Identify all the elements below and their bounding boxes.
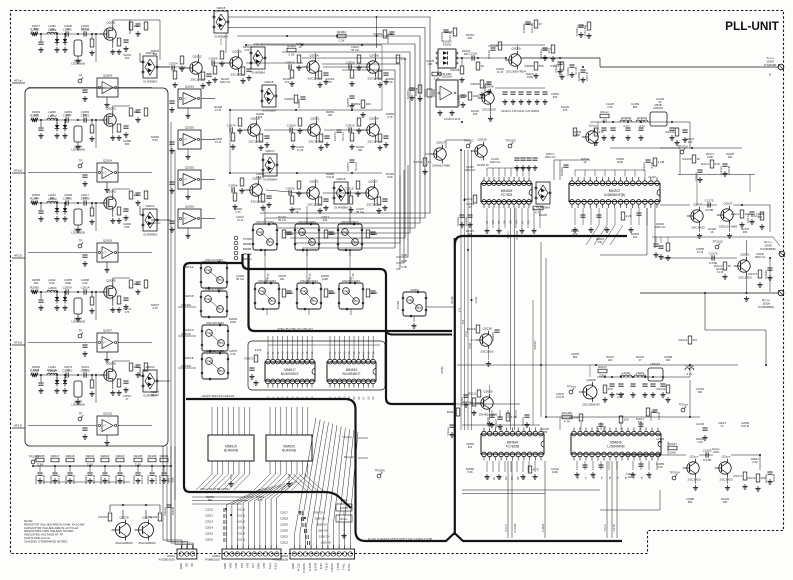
svg-text:5.6K: 5.6K bbox=[49, 27, 55, 31]
svg-text:C2181: C2181 bbox=[764, 474, 768, 483]
capacitor C2038 bbox=[158, 473, 170, 484]
svg-text:1K: 1K bbox=[710, 230, 713, 234]
svg-text:C2134: C2134 bbox=[595, 426, 599, 435]
svg-text:100K: 100K bbox=[322, 277, 328, 281]
svg-text:100K: 100K bbox=[65, 281, 71, 285]
resistor R2059 bbox=[471, 80, 490, 88]
resistor R2064 bbox=[160, 454, 169, 462]
ground bbox=[697, 233, 702, 238]
capacitor bbox=[135, 110, 140, 112]
ground bbox=[286, 481, 291, 486]
svg-text:C2145: C2145 bbox=[457, 97, 461, 106]
svg-text:Q2007: Q2007 bbox=[103, 329, 112, 333]
resistor R2149 bbox=[570, 414, 583, 421]
value label bbox=[686, 137, 694, 144]
ground bbox=[422, 169, 427, 174]
svg-text:0.01 B: 0.01 B bbox=[256, 175, 264, 179]
svg-text:C2165: C2165 bbox=[703, 448, 712, 452]
resistor bbox=[201, 72, 205, 80]
ground bbox=[149, 478, 154, 483]
capacitor bbox=[286, 291, 291, 293]
wire thick bus B bbox=[249, 254, 453, 331]
value label bbox=[48, 193, 56, 200]
resistor bbox=[573, 128, 577, 136]
ground bbox=[660, 392, 665, 397]
capacitor bbox=[82, 90, 87, 92]
svg-text:2.2M: 2.2M bbox=[658, 160, 665, 164]
ground bbox=[519, 228, 524, 233]
svg-text:2SC3000GR: 2SC3000GR bbox=[582, 403, 600, 407]
capacitor bbox=[382, 199, 387, 201]
capacitor bbox=[580, 215, 585, 217]
value label bbox=[326, 110, 334, 117]
capacitor C2013 bbox=[81, 196, 90, 205]
svg-text:P/08B2B2B: P/08B2B2B bbox=[272, 557, 288, 561]
svg-text:C2077: C2077 bbox=[346, 162, 350, 171]
value label bbox=[32, 110, 40, 117]
value label bbox=[616, 392, 624, 399]
svg-text:C2075: C2075 bbox=[346, 98, 350, 107]
transistor Q2005 bbox=[579, 378, 601, 407]
ground bbox=[240, 78, 245, 83]
value label bbox=[326, 77, 334, 84]
wire bbox=[119, 466, 121, 472]
svg-text:VT0: VT0 bbox=[460, 307, 462, 312]
value label bbox=[278, 215, 286, 222]
resistor bbox=[528, 466, 539, 473]
wire Rx jog path bbox=[705, 293, 766, 365]
ground bbox=[486, 89, 491, 94]
capacitor C2015 bbox=[345, 186, 354, 195]
node UHF11! bbox=[178, 332, 196, 336]
svg-text:GND: GND bbox=[223, 563, 227, 569]
ground bbox=[630, 472, 635, 477]
ground bbox=[449, 110, 454, 115]
ground bbox=[116, 218, 121, 223]
value label bbox=[462, 49, 470, 56]
svg-text:VT1B: VT1B bbox=[467, 331, 469, 337]
ground bbox=[323, 205, 328, 210]
ground bbox=[409, 95, 414, 100]
wire bbox=[96, 361, 130, 389]
svg-text:Q2009: Q2009 bbox=[511, 47, 521, 51]
wire bundle to J2021 bbox=[163, 446, 193, 549]
node input row R2062 bbox=[30, 33, 96, 35]
capacitor C2181 bbox=[764, 472, 776, 483]
svg-text:3.3K: 3.3K bbox=[433, 77, 439, 81]
wire bbox=[40, 292, 42, 299]
svg-text:C2B1B7: C2B1B7 bbox=[534, 340, 537, 350]
svg-text:Q2005: Q2005 bbox=[586, 378, 596, 382]
value label bbox=[596, 237, 604, 244]
svg-text:OSC17 FM23: OSC17 FM23 bbox=[205, 287, 223, 291]
resistor R2022 bbox=[101, 454, 110, 462]
wire bbox=[28, 88, 152, 103]
svg-text:33K: 33K bbox=[666, 358, 671, 362]
svg-text:R2064: R2064 bbox=[160, 454, 169, 458]
resistor bbox=[290, 70, 294, 78]
capacitor C2009 bbox=[63, 285, 72, 294]
svg-text:R2147: R2147 bbox=[668, 442, 677, 446]
svg-text:R2103: R2103 bbox=[99, 515, 108, 519]
svg-text:680: 680 bbox=[658, 440, 663, 444]
svg-text:C2030: C2030 bbox=[34, 475, 38, 484]
svg-text:TP2xxx: TP2xxx bbox=[567, 384, 577, 388]
capacitor bbox=[38, 42, 43, 44]
wire thick bus branch bbox=[386, 328, 452, 335]
svg-text:B-5TB: B-5TB bbox=[313, 563, 317, 571]
test point TP2005 bbox=[505, 138, 516, 148]
ground bbox=[604, 227, 609, 232]
VCO module OSC06 FM23 bbox=[296, 279, 322, 310]
transistor Q2006 bbox=[363, 54, 381, 81]
wire long vertical bbox=[174, 150, 176, 500]
capacitor C2077 bbox=[346, 160, 358, 171]
svg-text:C2035: C2035 bbox=[114, 475, 118, 484]
resistor bbox=[129, 363, 139, 371]
svg-text:B-PLL: B-PLL bbox=[347, 563, 351, 571]
ground bbox=[38, 133, 43, 138]
svg-text:P-CLK P-DATA 8-STB P-STB T-CLK: P-CLK P-DATA 8-STB P-STB T-CLK T-DATA T-… bbox=[368, 537, 432, 541]
FET Q2008 bbox=[100, 362, 116, 385]
svg-text:5.6K: 5.6K bbox=[467, 470, 473, 474]
diode mixer D2010 bbox=[142, 365, 158, 398]
ground bbox=[38, 305, 43, 310]
svg-text:C2015: C2015 bbox=[345, 186, 354, 190]
capacitor C2134 bbox=[595, 424, 607, 435]
capacitor C2050 bbox=[346, 60, 355, 69]
buffer amp Q2020 bbox=[178, 126, 201, 150]
pin labels bbox=[179, 563, 194, 569]
svg-text:C2014: C2014 bbox=[81, 285, 90, 289]
ground bbox=[653, 252, 658, 257]
resistor bbox=[349, 196, 353, 204]
svg-text:BU4094BCF: BU4094BCF bbox=[343, 372, 361, 376]
svg-text:4.7K: 4.7K bbox=[152, 306, 158, 310]
svg-text:C2036: C2036 bbox=[132, 475, 136, 484]
svg-text:R-STB: R-STB bbox=[308, 563, 312, 571]
svg-text:1K: 1K bbox=[50, 113, 53, 117]
resistor bbox=[350, 70, 354, 78]
ground bbox=[349, 81, 354, 86]
ground bbox=[123, 215, 128, 220]
svg-text:5.6K: 5.6K bbox=[49, 281, 55, 285]
wire bbox=[425, 140, 470, 154]
resistor bbox=[621, 212, 632, 220]
capacitor bbox=[514, 158, 519, 160]
diode bbox=[63, 294, 67, 304]
svg-text:L-T5: L-T5 bbox=[351, 273, 355, 279]
diode mixer D2019 bbox=[250, 42, 266, 75]
resistor bbox=[533, 206, 543, 214]
svg-text:R-CLK: R-CLK bbox=[507, 231, 510, 239]
svg-text:2SC2603: 2SC2603 bbox=[481, 350, 494, 354]
IC M54844 bbox=[481, 428, 544, 461]
svg-text:2.2K: 2.2K bbox=[752, 460, 758, 464]
svg-text:10K: 10K bbox=[280, 277, 285, 281]
ground bbox=[75, 227, 80, 232]
ground bbox=[510, 99, 515, 104]
test point TP2002 bbox=[463, 138, 474, 148]
pin labels bbox=[223, 562, 277, 569]
svg-text:B-5V: B-5V bbox=[319, 563, 323, 569]
svg-text:T-PLL: T-PLL bbox=[341, 562, 345, 570]
wire bbox=[297, 116, 317, 143]
transistor Q2xxx bbox=[582, 124, 598, 147]
value label bbox=[123, 394, 131, 401]
capacitor C2070 bbox=[440, 30, 452, 41]
svg-text:LC58494NB: LC58494NB bbox=[607, 444, 624, 448]
resistor bbox=[144, 108, 148, 116]
crystal oscillator X2001 bbox=[436, 40, 458, 69]
capacitor bbox=[598, 465, 603, 467]
FET Q2005 bbox=[100, 279, 116, 302]
svg-text:1M: 1M bbox=[693, 338, 698, 342]
capacitor C2176 bbox=[709, 251, 718, 264]
diode bbox=[63, 36, 67, 46]
value label bbox=[664, 355, 672, 362]
svg-text:C2xxx: C2xxx bbox=[163, 507, 167, 516]
svg-text:C2034: C2034 bbox=[169, 61, 178, 65]
ground bbox=[323, 79, 328, 84]
svg-text:R2113: R2113 bbox=[447, 410, 456, 414]
ground bbox=[239, 188, 244, 193]
resistor R2106 bbox=[148, 454, 157, 462]
transistor Q2078 bbox=[135, 515, 157, 545]
capacitor C2008 bbox=[63, 196, 72, 205]
resistor R2061 bbox=[287, 44, 296, 57]
ground bbox=[161, 478, 166, 483]
svg-text:TP2007: TP2007 bbox=[243, 237, 253, 241]
svg-text:R2061: R2061 bbox=[287, 44, 296, 48]
capacitor bbox=[82, 428, 87, 430]
svg-text:1000 CH: 1000 CH bbox=[316, 523, 327, 527]
capacitor C2xxx bbox=[460, 395, 469, 406]
resistor R2018 bbox=[66, 454, 75, 462]
ground bbox=[116, 49, 121, 54]
ground bbox=[702, 435, 707, 440]
svg-text:FC7825: FC7825 bbox=[501, 193, 513, 197]
FET Q2011 bbox=[100, 21, 116, 44]
node HF13! bbox=[12, 424, 25, 429]
wire Rx Lo line bbox=[640, 292, 778, 294]
resistor bbox=[129, 280, 139, 288]
capacitor C2007 bbox=[63, 113, 72, 122]
svg-text:C2133: C2133 bbox=[521, 417, 525, 426]
ground bbox=[377, 82, 382, 87]
svg-text:Q2047: Q2047 bbox=[723, 202, 733, 206]
value label bbox=[616, 157, 624, 164]
svg-text:Q2036: Q2036 bbox=[477, 138, 487, 142]
resistor bbox=[129, 22, 139, 30]
svg-text:Q2071: Q2071 bbox=[740, 253, 750, 257]
resistor R2064 bbox=[30, 197, 39, 206]
resistor bbox=[366, 289, 377, 297]
ground bbox=[296, 65, 301, 70]
svg-text:C2064: C2064 bbox=[406, 90, 410, 99]
resistor R2058 bbox=[409, 85, 422, 93]
wire bbox=[96, 189, 130, 217]
svg-text:2SA1208GR: 2SA1208GR bbox=[115, 541, 133, 545]
capacitor C2203 bbox=[491, 330, 500, 341]
svg-text:0.01 B: 0.01 B bbox=[57, 475, 61, 484]
resistor R2138 bbox=[451, 66, 464, 74]
capacitor C2123 bbox=[464, 215, 473, 226]
ground bbox=[665, 255, 670, 260]
ground bbox=[104, 102, 109, 107]
svg-text:C2031: C2031 bbox=[49, 475, 53, 484]
wire bbox=[40, 375, 42, 382]
ground bbox=[290, 144, 295, 149]
ground bbox=[185, 194, 190, 199]
inductor L2004 bbox=[47, 286, 58, 292]
resistor R2023 bbox=[116, 454, 125, 462]
ground bbox=[520, 474, 525, 479]
svg-text:TP: TP bbox=[79, 411, 83, 415]
svg-text:T-STB: T-STB bbox=[613, 524, 616, 531]
wire nested bus bbox=[228, 16, 430, 269]
inductor LR2024 bbox=[636, 116, 648, 128]
svg-text:R2xxx: R2xxx bbox=[340, 517, 348, 521]
ground bbox=[550, 56, 555, 61]
svg-text:10K: 10K bbox=[428, 62, 433, 66]
svg-text:1000 CH: 1000 CH bbox=[321, 541, 332, 545]
value label bbox=[296, 42, 304, 49]
wire IC5 pin fan bbox=[196, 474, 308, 490]
ground bbox=[135, 31, 140, 36]
svg-text:Y-(C): Y-(C) bbox=[268, 563, 272, 569]
capacitor bbox=[286, 232, 291, 234]
ground bbox=[318, 145, 323, 150]
svg-text:BU4094B: BU4094B bbox=[224, 448, 238, 452]
diode bbox=[63, 377, 67, 387]
svg-text:C2070: C2070 bbox=[286, 60, 295, 64]
ground bbox=[757, 282, 762, 287]
capacitor C2075 bbox=[346, 96, 355, 107]
svg-text:C2203: C2203 bbox=[491, 332, 495, 341]
value label bbox=[631, 232, 639, 239]
svg-text:C2036: C2036 bbox=[286, 186, 295, 190]
capacitor C2190 bbox=[486, 415, 495, 426]
svg-text:10K: 10K bbox=[328, 113, 333, 117]
svg-text:56 CH: 56 CH bbox=[236, 277, 244, 281]
svg-text:1000 CH: 1000 CH bbox=[313, 511, 324, 515]
wire bbox=[140, 367, 170, 381]
capacitor bbox=[328, 232, 333, 234]
node input row R2066 bbox=[30, 374, 96, 376]
svg-text:680: 680 bbox=[208, 498, 213, 502]
resistor bbox=[90, 208, 94, 216]
resistor R2xxx bbox=[463, 398, 476, 406]
svg-text:2.2K: 2.2K bbox=[401, 57, 407, 61]
resistor bbox=[619, 416, 629, 423]
value label bbox=[466, 442, 474, 449]
resistor R2062 bbox=[30, 28, 39, 37]
resistor bbox=[476, 62, 484, 70]
svg-text:P-DATA: P-DATA bbox=[302, 563, 306, 573]
ground bbox=[38, 47, 43, 52]
ground bbox=[135, 478, 140, 483]
ground bbox=[502, 99, 507, 104]
resistor bbox=[241, 67, 245, 75]
svg-text:100: 100 bbox=[651, 410, 656, 414]
ground bbox=[110, 307, 115, 312]
value label bbox=[123, 139, 131, 146]
svg-text:R2136: R2136 bbox=[489, 44, 498, 48]
svg-text:L300BB0B: L300BB0B bbox=[71, 403, 85, 407]
capacitor bbox=[383, 136, 388, 138]
svg-text:21.4M: 21.4M bbox=[648, 175, 655, 179]
inductor L2020 bbox=[620, 371, 632, 377]
ground bbox=[206, 80, 211, 85]
ground bbox=[383, 142, 388, 147]
svg-text:33K: 33K bbox=[468, 232, 473, 236]
capacitor bbox=[383, 73, 388, 75]
svg-text:Q2021: Q2021 bbox=[310, 117, 320, 121]
svg-text:C2038: C2038 bbox=[158, 475, 162, 484]
VCO module OSC18 FM23 bbox=[201, 321, 229, 352]
value label bbox=[606, 102, 614, 109]
svg-text:E-(C): E-(C) bbox=[273, 563, 277, 570]
svg-text:47: 47 bbox=[469, 205, 472, 209]
ground bbox=[526, 165, 531, 170]
resistor bbox=[90, 297, 94, 305]
svg-text:B201N: B201N bbox=[442, 40, 451, 44]
capacitor C2032 bbox=[64, 473, 76, 484]
capacitor C2006 bbox=[63, 27, 72, 36]
wire thick bus A bbox=[243, 254, 457, 404]
wire bbox=[228, 474, 291, 486]
capacitor bbox=[246, 69, 251, 71]
ground bbox=[532, 165, 537, 170]
ground bbox=[518, 99, 523, 104]
resistor bbox=[356, 181, 360, 189]
capacitor C2030 bbox=[34, 473, 46, 484]
svg-text:C2034: C2034 bbox=[99, 475, 103, 484]
svg-text:C2073: C2073 bbox=[333, 132, 337, 141]
svg-text:0.01 B: 0.01 B bbox=[556, 395, 564, 399]
node input row R2064 bbox=[30, 202, 96, 204]
node HF1a! bbox=[12, 169, 25, 174]
value label bbox=[81, 110, 89, 117]
resistor bbox=[297, 55, 301, 63]
ground bbox=[104, 187, 109, 192]
svg-text:R2171: R2171 bbox=[734, 474, 743, 478]
svg-text:LR2024: LR2024 bbox=[637, 116, 648, 120]
diode bbox=[55, 205, 59, 215]
svg-text:C2175: C2175 bbox=[705, 198, 714, 202]
svg-text:10K: 10K bbox=[723, 500, 728, 504]
value label bbox=[356, 207, 364, 214]
resistor R2xxx bbox=[731, 210, 750, 218]
svg-text:Q2024: Q2024 bbox=[369, 117, 379, 121]
capacitor bbox=[370, 232, 375, 234]
value label bbox=[741, 227, 749, 234]
resistor bbox=[129, 108, 139, 116]
wire drops to VCO modules bbox=[265, 206, 350, 283]
value label bbox=[48, 278, 56, 285]
ground bbox=[89, 136, 94, 141]
ground bbox=[437, 110, 442, 115]
svg-text:R-DATA: R-DATA bbox=[516, 230, 519, 239]
svg-text:R2155: R2155 bbox=[539, 213, 547, 217]
ground bbox=[486, 361, 491, 366]
diode bbox=[63, 122, 67, 132]
svg-text:L2020: L2020 bbox=[622, 371, 631, 375]
svg-text:L300BB0B: L300BB0B bbox=[71, 320, 85, 324]
svg-text:1000 CH: 1000 CH bbox=[319, 535, 330, 539]
svg-text:0.01: 0.01 bbox=[414, 90, 418, 96]
